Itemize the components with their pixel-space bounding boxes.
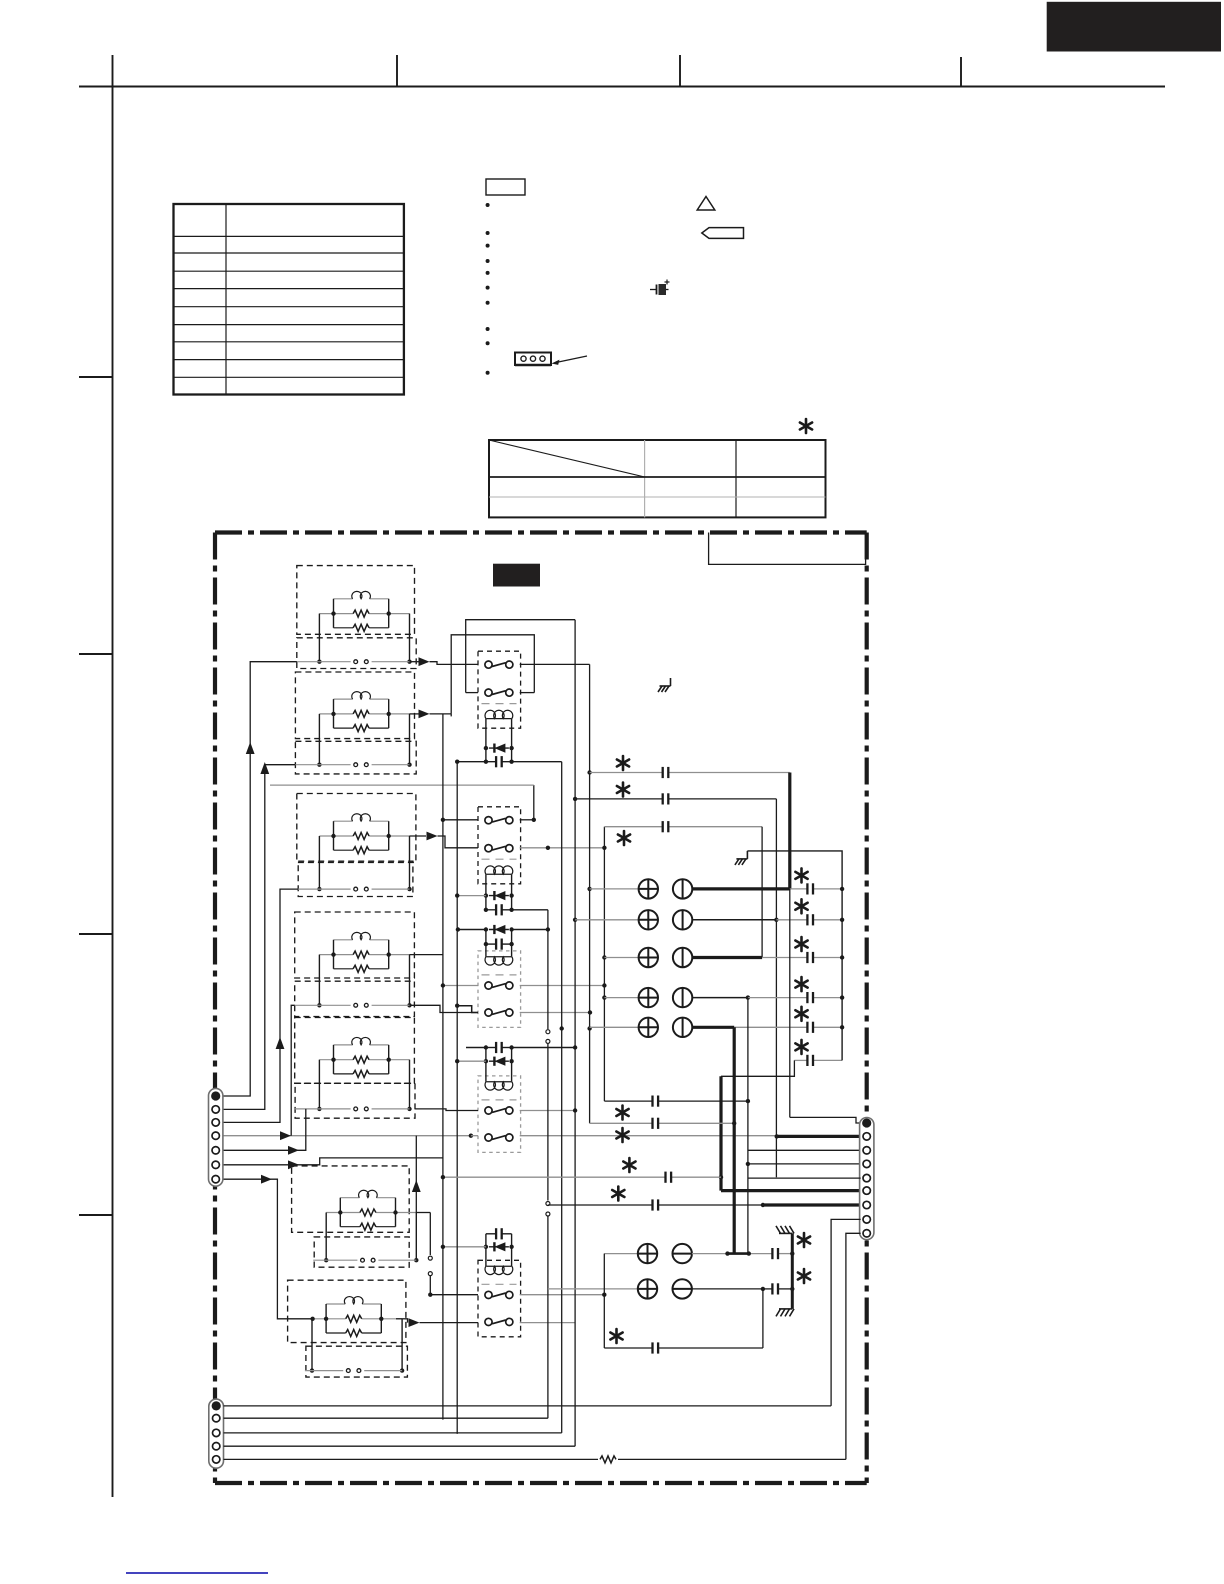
resistor FL3c: [334, 847, 389, 854]
relay RY4 contact 2: [485, 1134, 513, 1141]
terminal J7-: [673, 1279, 692, 1298]
diode D3: [456, 925, 550, 934]
node FL7 input: [310, 1317, 314, 1321]
wire CN1 pin7 to FL7 input: [223, 1179, 312, 1319]
wire RY3 coil legs: [484, 927, 514, 957]
wire bus v590: [587, 664, 591, 1123]
relay RY1 coil: [485, 710, 513, 718]
wire bus v561: [560, 762, 564, 1433]
asterisk C24: [795, 977, 807, 991]
wire FL5 bypass verticals: [317, 1060, 412, 1111]
asterisk C12: [617, 783, 629, 797]
capacitor C23 row: [762, 952, 842, 963]
wire terminal J6 feed: [604, 1253, 638, 1255]
node C25 right: [840, 1025, 844, 1029]
board label box: [709, 533, 866, 565]
relay RY5 contact 2: [485, 1318, 513, 1325]
wire CN1 pin4 line: [223, 1005, 473, 1138]
relay RY3 contact 2: [485, 1009, 513, 1016]
relay RY3 contact 1: [485, 982, 513, 989]
switch FL4s (bypass): [294, 981, 415, 1016]
filter unit FL7: [288, 1280, 406, 1342]
wire cap C26 left drop: [721, 1060, 794, 1076]
wire CN2 pin1 line: [224, 1405, 832, 1407]
wire terminal J6 out: [692, 1251, 792, 1255]
wire terminal J1 feed: [590, 888, 639, 890]
wire bus v442: [442, 714, 444, 1420]
frame tick left y934: [79, 933, 113, 935]
wire terminal J4 out: [692, 997, 748, 999]
wire RY2 contact1 out: [270, 785, 536, 822]
terminal J7+: [638, 1279, 657, 1298]
wire CN1 pin5 line: [223, 1109, 306, 1150]
asterisk C22: [795, 899, 807, 913]
wire v721 thick to CN3 pin5: [721, 1190, 861, 1192]
frame tick top x680: [679, 55, 681, 87]
arrow right FL7 output: [409, 1318, 420, 1327]
frame tick left y1215: [79, 1214, 113, 1216]
note key box: [486, 179, 525, 195]
asterisk C42: [798, 1269, 810, 1283]
relay RY2 contact 2: [485, 845, 513, 852]
relay RY4 separator: [482, 1099, 517, 1101]
wire terminal J5 feed: [590, 1026, 639, 1028]
wire bus v721 (thick): [719, 1076, 861, 1190]
wire FL4 output: [410, 954, 443, 956]
inductor FL1a: [334, 591, 389, 598]
wire CN1 pin2 to FL2 input: [223, 765, 296, 1110]
resistor FL2b: [319, 710, 409, 717]
filter unit FL5: [295, 1018, 415, 1084]
wire RY3 contact2 left: [457, 1006, 478, 1013]
wire RY3 contact1 out: [520, 983, 607, 987]
inductor FL2a: [334, 692, 389, 699]
resistor FL3b: [319, 833, 409, 840]
wire FL3 network sides: [331, 821, 391, 850]
arrow up FL6 output: [412, 1180, 421, 1192]
node C22 right: [840, 918, 844, 922]
wire FL6 output riser: [416, 1136, 430, 1213]
relay RY1: [478, 651, 521, 728]
relay RY5 coil: [485, 1266, 513, 1274]
diode D4: [455, 1057, 509, 1066]
wire bus v604 lower: [602, 1254, 606, 1348]
wire CN3 pin4 stub: [748, 1163, 861, 1165]
asterisk C31: [616, 1106, 628, 1120]
asterisk C32: [616, 1128, 628, 1142]
inductor FL4a: [334, 932, 389, 939]
wire CN1 pin3 to FL3 input: [223, 889, 298, 1122]
wire terminal J2 feed: [575, 919, 639, 921]
wire FL7 network sides: [324, 1304, 384, 1333]
note 3-pin connector symbol: [515, 353, 551, 366]
arrow up FL1 feed: [246, 742, 255, 754]
asterisk C41: [798, 1233, 810, 1247]
terminal J6+: [638, 1244, 657, 1263]
filter unit FL1: [297, 566, 415, 635]
wire RY5 contact1 out: [520, 1294, 605, 1296]
resistor FL2c: [334, 725, 389, 732]
resistor FL7c: [326, 1330, 381, 1337]
node J2 out: [774, 918, 778, 922]
board name block (black): [493, 564, 540, 587]
board border top: [215, 530, 867, 534]
capacitor C42: [772, 1283, 778, 1294]
wire FL7 bypass verticals: [310, 1319, 405, 1373]
wire RY1 loop B: [451, 635, 534, 714]
resistor FL6c: [340, 1223, 395, 1230]
filter unit FL3: [297, 794, 416, 863]
wire CN2 pin2 line: [224, 1417, 548, 1419]
wire FL7 output: [396, 1319, 478, 1323]
arrow right CN1 pin6: [288, 1160, 299, 1169]
capacitor C26 row: [794, 1055, 842, 1066]
connector CN2: [209, 1399, 224, 1468]
relay RY2 coil: [485, 866, 513, 874]
board border left: [213, 533, 217, 1484]
terminal J5+: [639, 1018, 658, 1037]
wire CN2 pin5 line: [224, 1458, 846, 1460]
wire terminal J2 out: [692, 919, 776, 921]
jumper circles on FL6 riser: [428, 1255, 433, 1276]
capacitor C4: [466, 1042, 577, 1053]
ground G1: [658, 678, 671, 692]
asterisk C33: [623, 1158, 635, 1172]
relay RY2 contact 1: [485, 817, 513, 824]
switch FL1s (bypass): [296, 638, 416, 669]
resistor FL4c: [334, 965, 389, 972]
terminal J1-: [673, 879, 692, 898]
arrow right FL2 output: [419, 710, 430, 719]
filter unit FL4: [295, 912, 415, 978]
wire terminal J3 out: [692, 956, 762, 959]
wire CN1 pin6 line: [223, 1158, 443, 1165]
wire CN3 pin9 wire: [846, 1233, 861, 1459]
resistor FL5b: [319, 1056, 409, 1063]
wire terminal J7 out: [692, 1287, 792, 1291]
wire FL6 bypass verticals: [324, 1213, 418, 1263]
capacitor C13 row: [604, 821, 762, 832]
ground G2: [735, 851, 748, 865]
terminal J4-: [673, 988, 692, 1007]
switch FL6s (bypass): [313, 1237, 416, 1267]
wire RY3 contact2 out: [520, 1010, 593, 1014]
wire bus v790: [790, 889, 861, 1123]
note warning triangle: [697, 197, 715, 211]
capacitor C33 row: [441, 1172, 721, 1183]
relay RY1 separator: [482, 703, 517, 705]
wire FL5 switch output: [415, 1109, 478, 1111]
wire ground feed G2: [747, 851, 842, 1061]
wire CN2 pin3 line: [224, 1432, 562, 1434]
arrow right CN1 pin5: [288, 1146, 299, 1155]
board border right: [865, 533, 869, 1484]
frame tick top x397: [396, 55, 398, 87]
terminal J2-: [673, 910, 692, 929]
arrow right FL3 output: [427, 832, 438, 841]
asterisk C34: [612, 1187, 624, 1201]
connector CN1: [209, 1088, 223, 1186]
inductor FL5a: [334, 1037, 389, 1044]
switch FL7s (bypass): [305, 1346, 408, 1377]
page frame horizontal rule: [79, 86, 1165, 88]
note bullet list: [486, 203, 490, 375]
wire CN1 pin1 to FL1 input: [223, 662, 297, 1096]
connector CN3: [860, 1118, 874, 1240]
relay RY5: [478, 1260, 521, 1337]
relay RY1 contact 2: [485, 689, 513, 696]
wire RY1 contact2 left: [466, 692, 478, 694]
footer link underline: [126, 1572, 268, 1574]
arrow up FL3 feed: [276, 1037, 285, 1049]
inductor FL6a: [340, 1190, 395, 1197]
capacitor C12 row: [573, 793, 777, 804]
resistor FL5c: [334, 1070, 389, 1077]
parts table: [174, 204, 404, 395]
wire terminal J3 feed: [604, 957, 638, 959]
arrow right CN1 pin7: [261, 1175, 272, 1184]
terminal J6-: [673, 1244, 692, 1263]
wire FL2 output: [410, 713, 452, 715]
relay RY4 contact 1: [485, 1107, 513, 1114]
terminal J5-: [673, 1018, 692, 1037]
capacitor C43 row: [604, 1342, 763, 1353]
wire FL4 bypass verticals: [317, 955, 412, 1008]
frame tick left y654: [79, 653, 113, 655]
arrow up FL2 feed: [260, 762, 269, 774]
note polarity symbol: [650, 280, 670, 296]
relay RY3 coil: [485, 957, 513, 965]
terminal J4+: [639, 988, 658, 1007]
asterisk C21: [795, 868, 807, 882]
function table: [489, 440, 826, 517]
capacitor C21 row: [790, 883, 842, 894]
diode D1: [489, 744, 509, 753]
wire RY5 contact2 out: [520, 1322, 575, 1324]
capacitor C1: [457, 756, 562, 767]
wire RY4 contact2 line: [471, 1135, 777, 1137]
capacitor C3: [486, 939, 512, 950]
resistor FL4b: [319, 951, 409, 958]
capacitor C11 row: [590, 767, 790, 778]
wire terminal J4 feed: [604, 997, 638, 999]
diode D2: [455, 891, 509, 900]
capacitor C34 row: [548, 1199, 765, 1210]
wire C11 drop: [788, 773, 791, 889]
resistor FL1c: [334, 624, 389, 631]
wire RY4 coil legs: [484, 1045, 514, 1082]
wire FL4 switch output: [410, 1005, 479, 1012]
relay RY2 separator: [482, 858, 517, 860]
wire FL1 bypass verticals: [317, 614, 412, 664]
asterisk C43: [610, 1329, 622, 1343]
resistor FL7b: [312, 1315, 402, 1322]
wire terminal J1 out: [692, 887, 790, 890]
capacitor C5: [486, 1228, 512, 1239]
arrow right CN1 pin4: [280, 1131, 291, 1140]
wire FL4 network sides: [331, 940, 391, 969]
wire FL5 network sides: [331, 1045, 391, 1074]
ground G3: [776, 1226, 794, 1234]
capacitor C41: [772, 1248, 778, 1259]
inductor FL7a: [326, 1297, 381, 1304]
wire CN3 pin3 stub: [748, 1149, 861, 1151]
wire RY1 contact1 out: [520, 663, 590, 665]
diode D5: [441, 1242, 509, 1251]
wire FL1 output: [410, 662, 479, 665]
relay RY5 separator: [482, 1283, 517, 1285]
asterisk C13: [618, 831, 630, 845]
wire RY1 loop A: [466, 620, 575, 693]
wire RY2 contact1 left: [441, 818, 478, 822]
capacitor C31 row: [604, 1096, 748, 1107]
wire C34 to CN3 pin7 (thick): [763, 1203, 861, 1206]
wire bus v442 bottom corner: [442, 1419, 444, 1421]
asterisk C23: [795, 937, 807, 951]
ground G4: [776, 1309, 794, 1317]
wire RY2 coil legs: [484, 874, 514, 912]
asterisk note A: [800, 419, 812, 433]
wire RY1 coil legs: [484, 719, 514, 764]
relay RY1 contact 1: [485, 661, 513, 668]
node C23 right: [840, 955, 844, 959]
capacitor C2: [486, 904, 548, 915]
wire bus v762 lower: [762, 1289, 764, 1348]
arrow right FL1 output: [419, 657, 430, 666]
terminal J1+: [639, 879, 658, 898]
terminal J3+: [639, 948, 658, 967]
asterisk C11: [617, 756, 629, 770]
wire bus v575: [573, 620, 577, 1446]
note connector pointer arrow: [552, 356, 588, 365]
asterisk C25: [795, 1007, 807, 1021]
relay RY5 contact 1: [485, 1291, 513, 1298]
wire bus v548: [546, 910, 550, 1418]
terminal J3-: [673, 948, 692, 967]
terminal J2+: [639, 910, 658, 929]
resistor FL1b: [319, 610, 409, 617]
resistor FL6b: [326, 1209, 416, 1216]
asterisk C26: [795, 1040, 807, 1054]
relay RY3: [478, 951, 521, 1028]
capacitor C32 row: [590, 1118, 737, 1129]
wire FL3 bypass verticals: [317, 836, 412, 891]
wire RY4 line to CN3 pin2 (thick): [775, 1134, 861, 1138]
wire bus v734 (thick): [733, 1027, 736, 1253]
capacitor C24 row: [748, 992, 842, 1003]
relay RY4: [478, 1076, 521, 1153]
wire terminal J5 out: [692, 1026, 734, 1029]
wire CN3 pin5 stub: [748, 1177, 861, 1179]
wire bus v747: [746, 998, 750, 1254]
capacitor C22 row: [776, 914, 842, 925]
switch FL2s (bypass): [294, 741, 416, 774]
wire ground bus right (thick): [790, 1233, 794, 1309]
wire bus v451: [450, 714, 452, 717]
frame tick top x961: [960, 57, 962, 87]
wire CN2 pin4 line: [224, 1445, 576, 1447]
wire FL6 to RY5 contact1: [428, 1213, 478, 1297]
relay RY4 coil: [485, 1082, 513, 1090]
inductor FL3a: [334, 814, 389, 821]
frame tick left y377: [79, 376, 113, 378]
wire RY1 contact2 out: [520, 692, 535, 694]
filter unit FL6: [292, 1166, 410, 1232]
wire terminal J7 feed: [548, 1288, 638, 1290]
node C24 right: [840, 995, 844, 999]
header title block (black): [1047, 2, 1221, 52]
wire RY5 coil legs: [484, 1234, 514, 1266]
relay RY2: [478, 807, 521, 884]
wire bus v457: [455, 760, 459, 1434]
filter unit FL2: [295, 672, 414, 739]
capacitor C25 row: [734, 1022, 842, 1033]
wire RY4 contact1 out: [520, 1108, 578, 1112]
switch FL3s (bypass): [297, 861, 413, 896]
wire C12 drop: [775, 799, 777, 1177]
wire CN3 pin8 wire: [831, 1219, 861, 1406]
wire RY2 contact2 out: [520, 846, 607, 850]
resistor R10: [600, 1456, 616, 1463]
board border bottom: [215, 1481, 867, 1485]
page frame vertical rule: [112, 55, 114, 1497]
relay RY3 separator: [482, 974, 517, 976]
note tag symbol: [702, 228, 744, 239]
wire FL2 bypass verticals: [317, 714, 412, 767]
wire FL2 network sides: [331, 699, 391, 728]
wire C13 drop: [761, 827, 763, 958]
wire FL6 network sides: [338, 1198, 398, 1227]
node J4 out: [746, 995, 750, 999]
wire FL1 network sides: [331, 599, 391, 628]
switch FL5s (bypass): [294, 1083, 415, 1118]
wire RY3 contact1 left: [441, 983, 478, 987]
node C21 right: [840, 887, 844, 891]
wire FL3 output: [410, 836, 479, 848]
wire bus v604: [602, 827, 606, 1101]
